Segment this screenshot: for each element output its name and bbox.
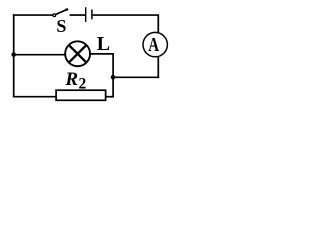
battery short plate	[91, 10, 93, 20]
switch S pivot	[53, 14, 56, 17]
switch S blade	[56, 9, 68, 14]
wire bottom-right horizontal to junction	[113, 76, 159, 78]
switch S blade tip	[65, 8, 68, 11]
wire ammeter bottom down	[157, 57, 159, 79]
svg-text:2: 2	[79, 75, 87, 92]
wire lamp right to corner	[89, 53, 114, 55]
svg-text:A: A	[148, 33, 159, 56]
wire switch to battery	[70, 14, 86, 16]
lamp L cross	[69, 45, 87, 63]
ammeter A circle	[143, 32, 167, 56]
wire bottom horizontal to resistor	[13, 96, 57, 98]
svg-text:R: R	[64, 69, 78, 90]
lamp L circle	[65, 41, 90, 66]
wire lamp left to left rail	[14, 54, 66, 56]
wire battery to top-right corner and down to ammeter	[93, 15, 159, 32]
left junction node dot	[11, 52, 16, 57]
wire left vertical rail	[13, 14, 15, 97]
battery long plate	[85, 7, 87, 22]
junction node dot	[111, 75, 116, 80]
svg-text:S: S	[56, 16, 66, 36]
wire top-left horizontal	[13, 14, 53, 16]
svg-text:L: L	[97, 33, 110, 55]
wire resistor right to junction vertical	[106, 96, 114, 98]
resistor R2 box	[56, 90, 106, 100]
wire junction vertical (lamp corner down to resistor level)	[112, 54, 114, 98]
